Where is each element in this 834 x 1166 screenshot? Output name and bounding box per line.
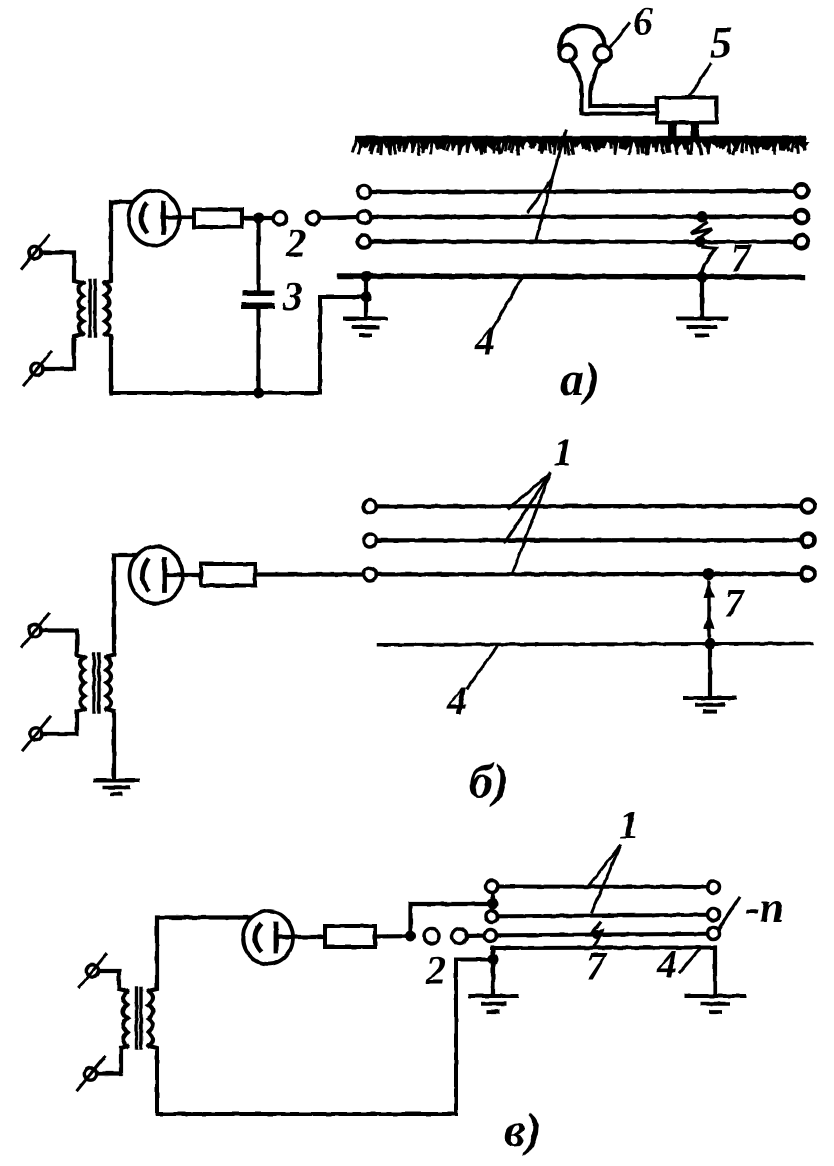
wire [99, 971, 128, 991]
wire to core 2 [320, 217, 358, 218]
leader fork to cable cores (fig a) [528, 131, 566, 240]
cable core 2 (fig a) [358, 210, 809, 224]
transformer Tr (fig a) [22, 236, 110, 386]
core [137, 988, 142, 1048]
svg-text:1: 1 [619, 802, 639, 847]
wire secondary bottom (fig a) [105, 334, 111, 393]
fault node on core 3 (fig v) [592, 930, 601, 939]
svg-text:6: 6 [633, 0, 653, 44]
cable core 3 (fig a) [358, 235, 809, 249]
wire tube to resistor [163, 215, 194, 219]
label 1 with fork (fig v) [588, 802, 639, 912]
svg-text:7: 7 [731, 236, 753, 281]
svg-text:а): а) [560, 353, 600, 406]
svg-text:в): в) [504, 1104, 541, 1157]
discharge tube F (fig v) [243, 911, 293, 964]
ground (generator, fig b) [96, 781, 138, 795]
wire stem to ground (fig a right) [700, 277, 704, 318]
wire riser to ground point [320, 297, 366, 393]
ground (left, fig v) [470, 996, 517, 1012]
wire sheath left end down [491, 948, 495, 995]
wire tube to resistor [165, 573, 202, 577]
wire [42, 709, 85, 734]
cable core 1 (fig b) [364, 499, 815, 513]
resistor R (fig a) [194, 210, 242, 228]
spark gap contact [424, 929, 439, 944]
wire [242, 216, 274, 220]
transformer Tr (fig v) [78, 954, 154, 1090]
label 4 (fig b) [446, 647, 497, 723]
label 1-n [719, 883, 784, 932]
cable core 3 (fig b) [364, 567, 815, 581]
wire [97, 1046, 128, 1074]
discharge tube F (fig a) [129, 191, 180, 246]
wire ground stem [364, 274, 368, 318]
wire bus [490, 892, 494, 911]
svg-text:7: 7 [724, 581, 746, 626]
node on bus [487, 899, 498, 910]
cable core 2 (fig b) [364, 534, 815, 548]
wire secondary top to tube (fig a) [105, 202, 136, 283]
fault node on core 3 [695, 236, 706, 247]
transformer Tr (fig b) [22, 614, 111, 751]
label 1 with fork (fig b) [505, 430, 573, 575]
terminal X2 [31, 363, 43, 375]
earth surface (hatched ground line) [353, 136, 810, 154]
primary winding [79, 283, 84, 334]
svg-text:7: 7 [586, 944, 608, 989]
node on sheath at fault [697, 272, 708, 283]
wire tube to resistor [276, 935, 325, 939]
ground (right, fig a) [678, 319, 726, 336]
wire secondary bottom to ground [107, 709, 115, 780]
fault node on core 3 (fig b) [703, 568, 715, 580]
ground (left, fig a) [345, 319, 386, 336]
secondary winding [105, 283, 110, 334]
wire [41, 631, 85, 658]
terminal X1 [29, 624, 41, 636]
node after resistor [405, 931, 416, 942]
wire secondary top to tube (fig b) [107, 555, 137, 657]
wire [375, 934, 405, 938]
capacitor 3 [241, 218, 275, 393]
cable core 3 (fig v) [485, 928, 720, 942]
primary winding [123, 991, 128, 1046]
spark core2-core3 [691, 223, 712, 240]
secondary winding [107, 657, 112, 709]
cable core 2 (fig v) [486, 909, 720, 923]
spark gap contact 2 [307, 212, 320, 225]
svg-text:4: 4 [474, 319, 495, 364]
wire resistor to core 3 [255, 572, 364, 576]
svg-text:-n: -n [745, 883, 784, 932]
svg-text:2: 2 [285, 221, 306, 266]
svg-text:3: 3 [282, 274, 303, 319]
resistor R (fig b) [201, 564, 255, 586]
spark gap contact [274, 212, 287, 225]
core [90, 280, 95, 336]
node on sheath [361, 271, 372, 282]
svg-text:б): б) [469, 755, 509, 808]
svg-text:1: 1 [553, 430, 573, 475]
node (junction dot) [253, 213, 264, 224]
node on bottom rail [253, 388, 264, 399]
wire sheath right end down [713, 948, 717, 996]
svg-text:2: 2 [425, 948, 446, 993]
node [488, 954, 499, 965]
terminal X1 [86, 965, 98, 977]
ground (right, fig v) [687, 996, 745, 1012]
primary winding [80, 657, 85, 709]
wire [43, 334, 83, 369]
label 5 [690, 18, 733, 97]
label 4 (fig a) [474, 279, 521, 364]
wire secondary bottom + return loop [149, 960, 491, 1115]
ground (fault, fig b) [685, 698, 735, 712]
wire to cores 1-2 bus [411, 904, 491, 936]
wire [41, 253, 83, 284]
earth return 4 (fig b) [378, 644, 812, 645]
terminal X2 [30, 728, 42, 740]
svg-text:4: 4 [656, 942, 677, 987]
node at sheath ground [361, 292, 372, 303]
discharge arrow to earth [703, 581, 715, 640]
cable sheath 4 (fig a) [340, 276, 803, 277]
wire bottom rail (fig a) [111, 391, 320, 395]
svg-text:5: 5 [710, 18, 732, 67]
wire stem to ground (fig b) [708, 644, 712, 698]
receiver box 5 [657, 98, 717, 138]
cable core 1 (fig v) [486, 881, 720, 894]
terminal X1 [29, 246, 41, 258]
terminal X2 [84, 1068, 96, 1080]
core [94, 654, 99, 712]
label 6 [611, 0, 653, 47]
label 4 (fig v) [656, 942, 699, 987]
wire [467, 933, 485, 938]
cable sheath 4 (fig v) [492, 946, 715, 951]
cable core 1 (fig a) [358, 184, 809, 198]
node on earth return [705, 638, 716, 649]
svg-text:4: 4 [446, 678, 467, 723]
secondary winding [149, 991, 154, 1046]
headphones 6 [559, 26, 657, 114]
spark core3-sheath (fig v) [592, 923, 602, 948]
wire secondary top to tube (fig v) [149, 918, 252, 992]
fault node on core 2 [697, 212, 708, 223]
spark gap contact 2 [452, 929, 467, 944]
discharge tube F (fig b) [130, 547, 183, 604]
resistor R (fig v) [325, 926, 375, 947]
spark core3-sheath [701, 247, 716, 274]
